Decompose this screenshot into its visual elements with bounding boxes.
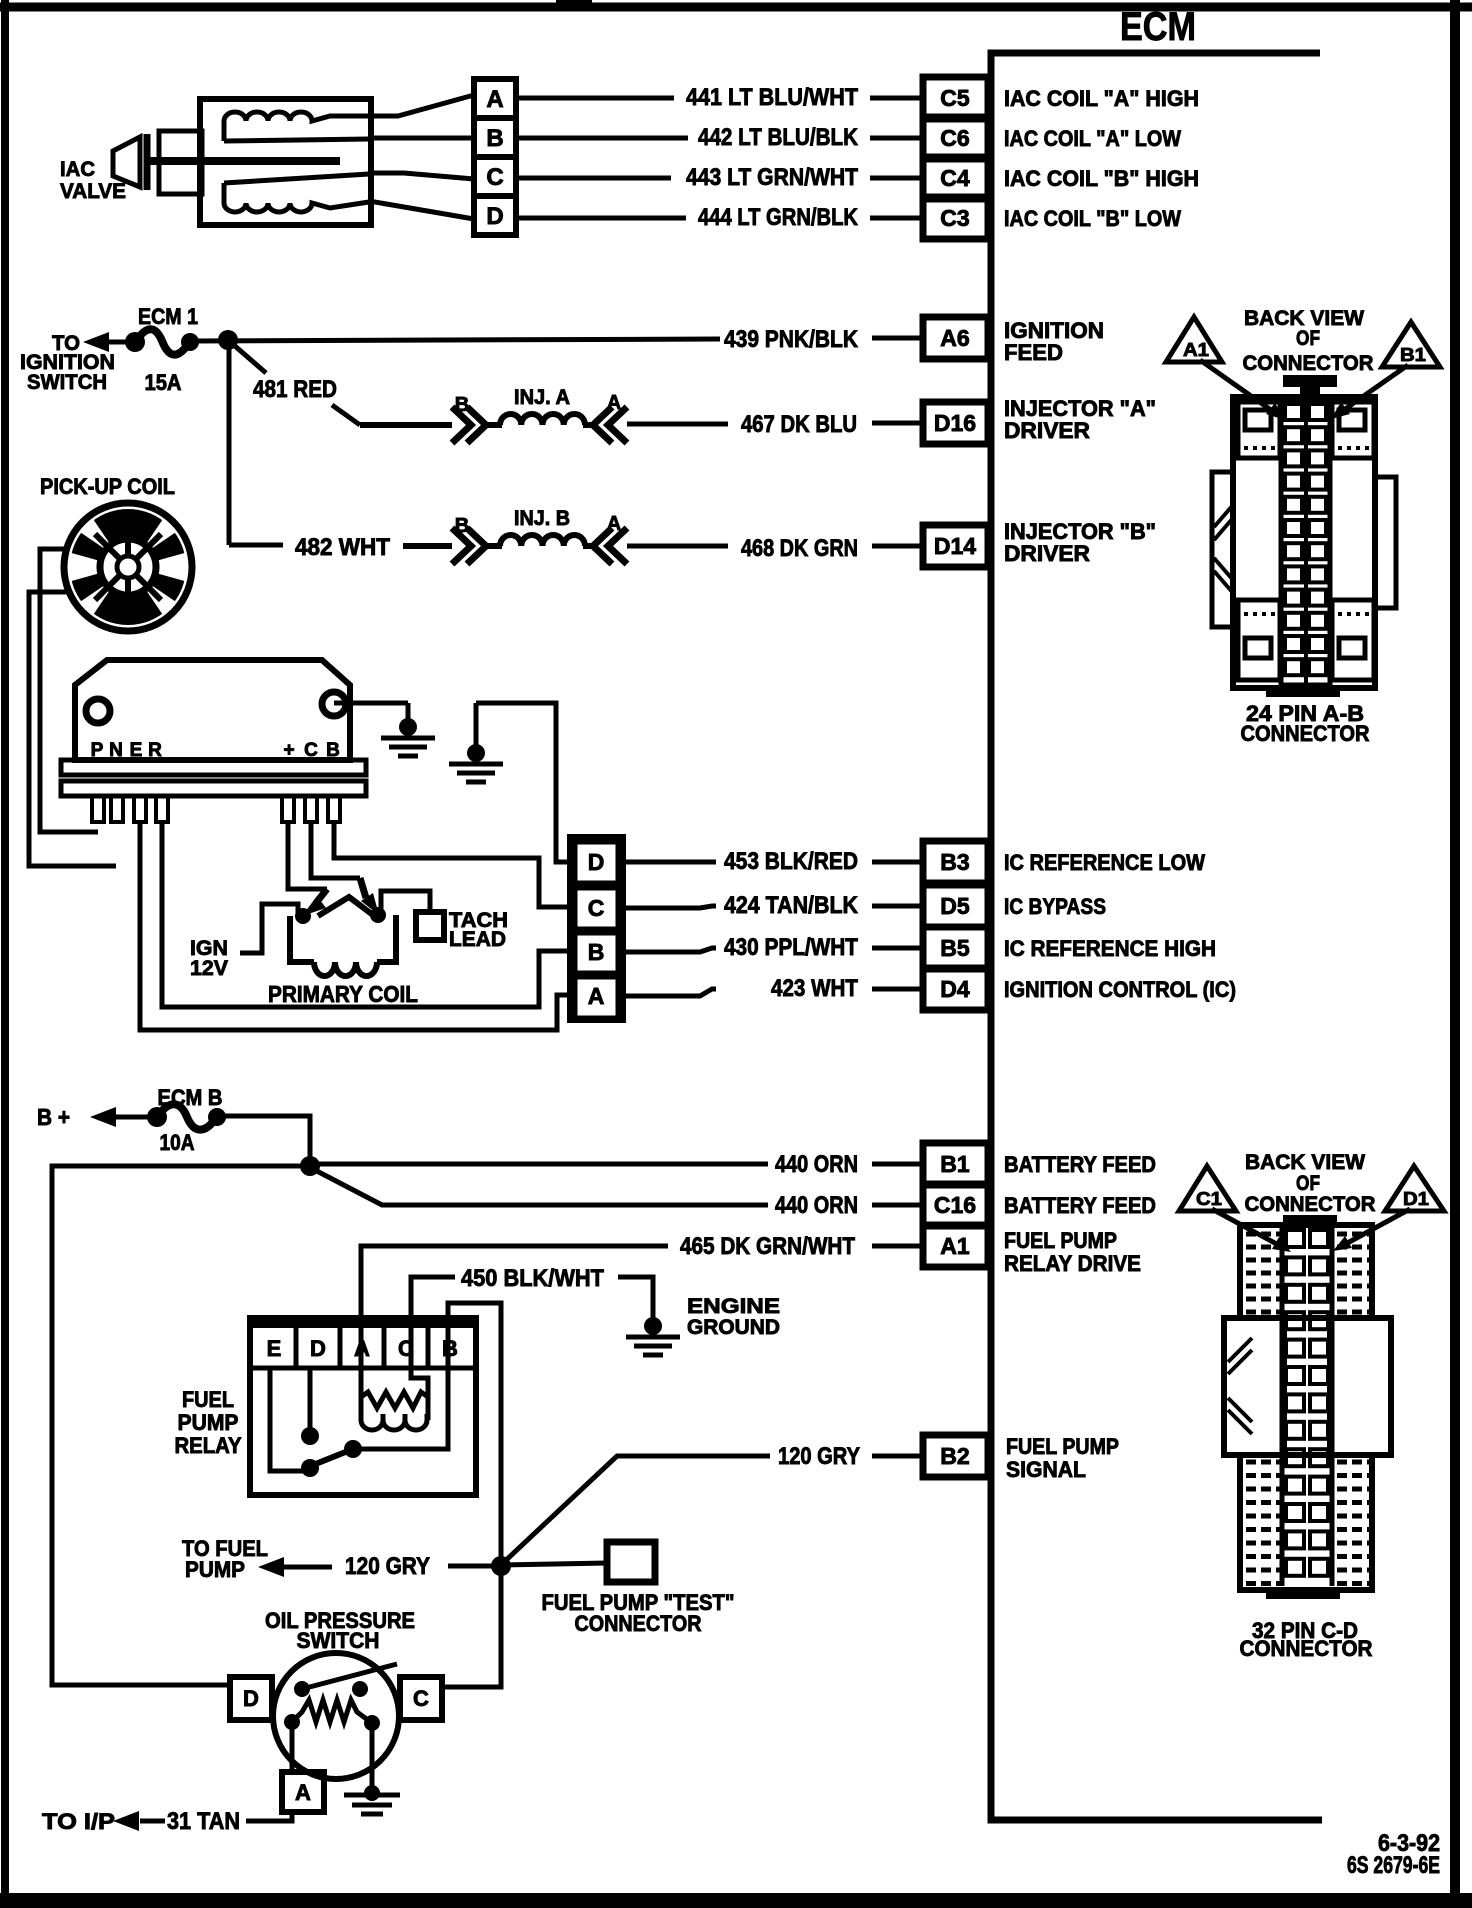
wire 439 PNK/BLK: [190, 338, 923, 341]
svg-text:A: A: [607, 392, 621, 414]
label TACH LEAD: [449, 909, 508, 951]
svg-text:439 PNK/BLK: 439 PNK/BLK: [724, 326, 859, 353]
IAC valve nozzle: [113, 134, 205, 190]
svg-text:443 LT GRN/WHT: 443 LT GRN/WHT: [686, 164, 858, 191]
wire pick-up coil N: [29, 592, 116, 866]
svg-text:OF: OF: [1296, 1172, 1320, 1195]
label 430 PPL/WHT: [724, 934, 858, 961]
label PRIMARY COIL: [268, 981, 418, 1007]
wire junction to test connector: [501, 1563, 607, 1565]
svg-text:DRIVER: DRIVER: [1004, 418, 1090, 443]
ECM pin C3: [923, 197, 988, 239]
ECM pin B5: [923, 927, 988, 969]
svg-text:IC REFERENCE HIGH: IC REFERENCE HIGH: [1004, 936, 1216, 961]
svg-text:INJ. B: INJ. B: [514, 507, 570, 530]
svg-text:B2: B2: [940, 1443, 969, 1469]
svg-text:441 LT BLU/WHT: 441 LT BLU/WHT: [686, 84, 858, 111]
svg-text:PRIMARY COIL: PRIMARY COIL: [268, 981, 418, 1007]
label 120 GRY left: [345, 1553, 430, 1580]
function label IC REFERENCE HIGH: [1004, 936, 1216, 961]
svg-text:120 GRY: 120 GRY: [345, 1553, 430, 1580]
label TO I/P: [42, 1809, 115, 1834]
svg-text:CONNECTOR: CONNECTOR: [1245, 1193, 1376, 1216]
svg-text:C: C: [398, 1336, 414, 1361]
svg-text:453 BLK/RED: 453 BLK/RED: [724, 848, 858, 875]
ECM pin D4: [923, 968, 988, 1010]
svg-text:IAC COIL "B" HIGH: IAC COIL "B" HIGH: [1004, 166, 1199, 191]
wire 31 TAN: [140, 1812, 292, 1821]
arrow TO I/P: [113, 1811, 139, 1831]
label 32 PIN C-D CONNECTOR: [1240, 1618, 1373, 1661]
label 444 LT GRN/BLK: [698, 204, 859, 231]
svg-text:440 ORN: 440 ORN: [775, 1192, 858, 1219]
ground 2: [449, 703, 503, 782]
function label IAC COIL &quot;A&quot; LOW: [1004, 126, 1181, 151]
wire 440 ORN to B1: [310, 1162, 923, 1167]
ECM pin C5: [923, 77, 988, 119]
svg-text:FUEL PUMP: FUEL PUMP: [1004, 1228, 1117, 1253]
svg-text:CONNECTOR: CONNECTOR: [1243, 352, 1374, 375]
injector A symbol: [452, 386, 627, 443]
wire 450 BLK/WHT: [411, 1277, 455, 1386]
svg-text:481 RED: 481 RED: [253, 376, 337, 403]
ECM pin D14: [923, 525, 988, 567]
svg-text:TO I/P: TO I/P: [42, 1809, 115, 1834]
module screw right: [322, 692, 346, 716]
svg-text:D4: D4: [940, 976, 970, 1002]
wire 453 BLK/RED: [623, 860, 923, 865]
wire IAC A to connector: [369, 95, 474, 116]
svg-text:VALVE: VALVE: [60, 180, 126, 203]
wire module R to B: [162, 822, 572, 1007]
function label IGNITION FEED: [1004, 318, 1104, 365]
svg-text:ECM 1: ECM 1: [138, 304, 198, 329]
label OIL PRESSURE SWITCH: [265, 1608, 415, 1653]
junction node 120 GRY: [491, 1556, 511, 1576]
ECM pin C6: [923, 117, 988, 159]
footer date 6-3-92: [1347, 1830, 1440, 1879]
svg-text:A: A: [607, 513, 621, 535]
pick-up coil wheel: [64, 503, 192, 631]
label FUEL PUMP RELAY: [175, 1387, 242, 1458]
svg-text:ENGINE: ENGINE: [687, 1295, 780, 1318]
svg-text:D16: D16: [934, 410, 976, 436]
svg-text:430 PPL/WHT: 430 PPL/WHT: [724, 934, 858, 961]
svg-text:GROUND: GROUND: [687, 1316, 780, 1339]
svg-text:INJ. A: INJ. A: [514, 386, 570, 409]
svg-text:440 ORN: 440 ORN: [775, 1151, 858, 1178]
ECM pin D5: [923, 885, 988, 927]
fuel pump relay box: [250, 1318, 476, 1495]
32 pin connector body: [1224, 1215, 1391, 1599]
svg-text:IAC: IAC: [60, 158, 95, 181]
wire 120 GRY to junction: [448, 1564, 496, 1569]
callout triangle B1: [1382, 322, 1440, 367]
svg-text:IAC COIL "B" LOW: IAC COIL "B" LOW: [1004, 206, 1181, 231]
ECM title: [1120, 5, 1196, 49]
svg-text:LEAD: LEAD: [449, 928, 506, 951]
svg-text:C4: C4: [940, 165, 970, 191]
svg-text:D: D: [310, 1336, 326, 1361]
svg-text:A: A: [486, 86, 503, 113]
callout triangle D1: [1385, 1166, 1444, 1211]
svg-text:ECM B: ECM B: [158, 1085, 223, 1110]
label TO IGNITION SWITCH: [20, 332, 115, 394]
ground 1 wire from module: [334, 703, 435, 756]
function label IGNITION CONTROL (IC): [1004, 977, 1236, 1002]
wire 468 DK GRN: [627, 544, 923, 549]
wire junction down to oil switch C: [442, 1566, 501, 1687]
leader arrow B1: [1331, 365, 1408, 419]
svg-text:IAC COIL "A" LOW: IAC COIL "A" LOW: [1004, 126, 1181, 151]
wire 467 DK BLU: [627, 423, 923, 424]
svg-text:444 LT GRN/BLK: 444 LT GRN/BLK: [698, 204, 859, 231]
svg-text:C: C: [486, 164, 503, 191]
leader arrow D1: [1333, 1209, 1410, 1251]
callout triangle C1: [1179, 1166, 1236, 1211]
svg-text:D: D: [243, 1686, 259, 1711]
wire 442 LT BLU/BLK: [516, 136, 923, 141]
module text P N E R: [91, 740, 162, 761]
svg-text:IC REFERENCE LOW: IC REFERENCE LOW: [1004, 850, 1205, 875]
tach lead square: [381, 891, 444, 940]
function label INJECTOR B DRIVER: [1004, 519, 1156, 566]
svg-text:FUEL PUMP: FUEL PUMP: [1006, 1434, 1119, 1459]
svg-text:12V: 12V: [190, 957, 228, 980]
svg-text:C: C: [413, 1686, 429, 1711]
svg-text:A: A: [354, 1336, 370, 1361]
label 482 WHT: [295, 534, 390, 561]
label 453 BLK/RED: [724, 848, 858, 875]
svg-text:A6: A6: [940, 325, 969, 351]
label ENGINE GROUND: [687, 1295, 780, 1339]
label 467 DK BLU: [741, 411, 857, 438]
IAC connector pins A B C D: [474, 79, 516, 235]
oil switch ground: [344, 1723, 400, 1814]
svg-text:RELAY DRIVE: RELAY DRIVE: [1004, 1251, 1141, 1276]
wire 444 LT GRN/BLK: [516, 216, 923, 221]
32 pin connector hatching top: [1246, 1234, 1371, 1312]
label 450 BLK/WHT: [461, 1265, 604, 1292]
fuse ECM B 10A: [147, 1085, 226, 1155]
svg-text:B +: B +: [37, 1104, 70, 1130]
ECM pin B3: [923, 841, 988, 883]
label 465 DK GRN/WHT: [680, 1233, 855, 1260]
svg-text:442 LT BLU/BLK: 442 LT BLU/BLK: [698, 124, 859, 151]
svg-text:C16: C16: [934, 1192, 976, 1218]
IAC valve stem bracket: [159, 131, 202, 194]
module pins: [92, 796, 340, 822]
svg-text:DRIVER: DRIVER: [1004, 541, 1090, 566]
svg-text:IGNITION CONTROL (IC): IGNITION CONTROL (IC): [1004, 977, 1236, 1002]
svg-text:CONNECTOR: CONNECTOR: [1241, 721, 1370, 746]
IAC valve coil housing: [200, 99, 371, 225]
leader arrow A1: [1200, 360, 1285, 420]
32 pin connector left wing pattern: [1228, 1338, 1252, 1434]
function label BATTERY FEED 2: [1004, 1193, 1156, 1218]
svg-text:C3: C3: [940, 205, 969, 231]
ECM box outline: [991, 53, 1322, 1820]
svg-text:PICK-UP COIL: PICK-UP COIL: [40, 474, 175, 499]
label 481 RED: [253, 376, 337, 403]
junction node B+: [300, 1156, 320, 1176]
svg-text:15A: 15A: [145, 370, 182, 395]
label 468 DK GRN: [741, 535, 858, 562]
svg-text:B1: B1: [1400, 345, 1426, 365]
svg-text:D: D: [486, 203, 503, 230]
24 pin connector corner blocks: [1238, 402, 1374, 680]
svg-text:482 WHT: 482 WHT: [295, 534, 390, 561]
svg-text:A: A: [295, 1780, 311, 1805]
module text + C B: [283, 740, 339, 761]
wire IAC C to connector: [369, 173, 474, 179]
svg-text:423 WHT: 423 WHT: [771, 975, 858, 1002]
oil switch terminal A: [282, 1722, 324, 1812]
leader arrow C1: [1212, 1209, 1291, 1252]
label 423 WHT: [771, 975, 858, 1002]
svg-text:B: B: [486, 125, 503, 152]
svg-text:E: E: [267, 1336, 282, 1361]
svg-text:424 TAN/BLK: 424 TAN/BLK: [724, 892, 859, 919]
svg-text:6S 2679-6E: 6S 2679-6E: [1347, 1852, 1440, 1879]
svg-text:468 DK GRN: 468 DK GRN: [741, 535, 858, 562]
svg-text:C5: C5: [940, 85, 970, 111]
svg-text:PUMP: PUMP: [185, 1557, 245, 1582]
module screw left: [86, 699, 110, 723]
junction node: [218, 330, 238, 350]
svg-text:467 DK BLU: 467 DK BLU: [741, 411, 857, 438]
ECM pin B1: [923, 1143, 988, 1185]
label BACK VIEW OF CONNECTOR bottom: [1245, 1151, 1376, 1216]
fuse ECM 1 15A: [125, 304, 199, 395]
svg-text:C: C: [588, 895, 605, 921]
wire module B to C: [334, 822, 572, 907]
oil switch contacts and lever: [294, 1664, 397, 1697]
32 pin connector hatching bottom: [1246, 1462, 1371, 1584]
injector B symbol: [452, 507, 627, 564]
svg-text:C6: C6: [940, 125, 969, 151]
function label IAC COIL &quot;A&quot; HIGH: [1004, 86, 1199, 111]
svg-text:B3: B3: [940, 849, 969, 875]
IAC coil B winding: [224, 174, 369, 212]
ECM pin B2: [923, 1435, 988, 1477]
primary coil: [290, 897, 396, 976]
svg-text:465 DK GRN/WHT: 465 DK GRN/WHT: [680, 1233, 855, 1260]
arrow to ignition switch: [83, 332, 135, 352]
label 24 PIN A-B CONNECTOR: [1241, 701, 1370, 746]
ECM pin A6: [923, 317, 988, 359]
svg-text:B5: B5: [940, 935, 970, 961]
svg-text:SWITCH: SWITCH: [27, 371, 107, 394]
ECM pin C4: [923, 157, 988, 199]
ECM pin A1: [923, 1225, 988, 1267]
label 424 TAN/BLK: [724, 892, 859, 919]
wire 120 GRY diagonal to B2: [503, 1456, 923, 1563]
svg-text:IAC COIL "A" HIGH: IAC COIL "A" HIGH: [1004, 86, 1199, 111]
arrow to fuel pump: [258, 1557, 332, 1577]
IAC valve pintle shaft: [145, 157, 340, 165]
arrow B+: [90, 1107, 152, 1127]
svg-text:SIGNAL: SIGNAL: [1006, 1457, 1086, 1482]
label 31 TAN: [167, 1808, 240, 1835]
24 pin connector pin grid: [1281, 400, 1330, 685]
ECM pin D16: [923, 402, 988, 444]
IAC coil A winding: [224, 112, 369, 141]
svg-text:RELAY: RELAY: [175, 1433, 242, 1458]
svg-text:OF: OF: [1296, 327, 1320, 350]
function label IAC COIL &quot;B&quot; LOW: [1004, 206, 1181, 231]
label B+: [37, 1104, 70, 1130]
svg-text:A: A: [588, 983, 605, 1009]
svg-text:CONNECTOR: CONNECTOR: [575, 1611, 702, 1636]
label 439 PNK/BLK: [724, 326, 859, 353]
wire 465 DK GRN/WHT: [361, 1246, 923, 1397]
wire IAC D to connector: [369, 201, 474, 219]
24 pin connector body: [1212, 375, 1396, 697]
oil switch terminal D: [230, 1677, 272, 1720]
IAC valve label: [60, 158, 126, 203]
wire IGN 12V: [240, 904, 298, 953]
svg-text:A1: A1: [1183, 340, 1209, 360]
function label IC BYPASS: [1004, 894, 1106, 919]
label BACK VIEW OF CONNECTOR top: [1243, 307, 1374, 375]
ECM pin C16: [923, 1184, 988, 1226]
ignition module body: [75, 660, 350, 760]
label 120 GRY B2: [778, 1443, 860, 1470]
function label FUEL PUMP RELAY DRIVE: [1004, 1228, 1141, 1276]
svg-text:BACK VIEW: BACK VIEW: [1245, 1151, 1365, 1174]
svg-text:D5: D5: [940, 893, 970, 919]
label 442 LT BLU/BLK: [698, 124, 859, 151]
wire ground2 to D: [476, 703, 572, 862]
svg-text:B: B: [455, 394, 469, 416]
svg-text:D: D: [588, 849, 605, 875]
wire fuse to junction: [217, 1116, 310, 1166]
svg-text:IC BYPASS: IC BYPASS: [1004, 894, 1106, 919]
function label FUEL PUMP SIGNAL: [1006, 1434, 1119, 1482]
wire 430 PPL/WHT: [623, 948, 923, 952]
svg-text:B1: B1: [940, 1151, 970, 1177]
svg-text:SWITCH: SWITCH: [297, 1628, 380, 1653]
relay switch lever: [301, 1440, 362, 1477]
function label INJECTOR A DRIVER: [1004, 396, 1156, 443]
module connector strips: [61, 760, 366, 796]
svg-text:A1: A1: [940, 1233, 970, 1259]
wire IAC B to connector: [369, 136, 474, 141]
svg-text:B: B: [588, 939, 605, 965]
label 440 ORN C16: [775, 1192, 858, 1219]
svg-text:31 TAN: 31 TAN: [167, 1808, 240, 1835]
wire 440 ORN to C16: [313, 1169, 923, 1205]
relay internal E wire: [270, 1368, 305, 1471]
svg-text:D14: D14: [934, 533, 976, 559]
svg-text:FEED: FEED: [1004, 340, 1063, 365]
wire 441 LT BLU/WHT: [516, 96, 923, 101]
wire 481 RED from junction: [228, 340, 452, 425]
function label IC REFERENCE LOW: [1004, 850, 1205, 875]
label TO FUEL PUMP: [182, 1536, 268, 1582]
wire junction left down to oil switch D: [52, 1166, 310, 1685]
relay internal D wire and contact: [301, 1368, 319, 1445]
svg-text:120 GRY: 120 GRY: [778, 1443, 860, 1470]
label IGN 12V: [190, 937, 228, 980]
label 443 LT GRN/WHT: [686, 164, 858, 191]
wire 482 WHT: [229, 340, 452, 546]
wire module + to coil: [288, 822, 327, 916]
callout triangle A1: [1166, 317, 1222, 362]
svg-text:D1: D1: [1403, 1189, 1429, 1209]
oil switch terminal C: [400, 1677, 442, 1720]
svg-text:450 BLK/WHT: 450 BLK/WHT: [461, 1265, 604, 1292]
label 440 ORN B1: [775, 1151, 858, 1178]
svg-text:BATTERY FEED: BATTERY FEED: [1004, 1193, 1156, 1218]
wire module E to A: [140, 822, 572, 1030]
distributor connector D C B A: [570, 837, 623, 1020]
relay B to junction wire: [448, 1303, 501, 1561]
32 pin connector pin grid: [1282, 1228, 1332, 1586]
relay internal B wire: [353, 1329, 448, 1449]
oil pressure switch body: [273, 1653, 399, 1779]
function label IAC COIL &quot;B&quot; HIGH: [1004, 166, 1199, 191]
oil switch resistor: [284, 1700, 380, 1731]
svg-text:10A: 10A: [160, 1130, 195, 1155]
wire 424 TAN/BLK: [623, 906, 923, 908]
label FUEL PUMP TEST CONNECTOR: [542, 1590, 735, 1636]
svg-text:FUEL: FUEL: [182, 1387, 234, 1412]
24 pin connector left wing pattern: [1214, 505, 1233, 593]
svg-text:B: B: [455, 515, 469, 537]
fuel pump test connector: [607, 1542, 655, 1582]
label PICK-UP COIL: [40, 474, 175, 499]
label 441 LT BLU/WHT: [686, 84, 858, 111]
wire 423 WHT: [623, 989, 923, 996]
svg-text:PUMP: PUMP: [178, 1410, 239, 1435]
function label BATTERY FEED 1: [1004, 1152, 1156, 1177]
svg-text:CONNECTOR: CONNECTOR: [1240, 1636, 1373, 1661]
wire 443 LT GRN/WHT: [516, 176, 923, 181]
wire pick-up coil P: [40, 549, 98, 832]
wire to engine ground: [618, 1277, 680, 1355]
relay coil: [361, 1368, 428, 1430]
svg-text:ECM: ECM: [1120, 5, 1196, 49]
wire module C to coil: [311, 822, 379, 915]
svg-text:BATTERY FEED: BATTERY FEED: [1004, 1152, 1156, 1177]
svg-text:C1: C1: [1196, 1189, 1222, 1209]
